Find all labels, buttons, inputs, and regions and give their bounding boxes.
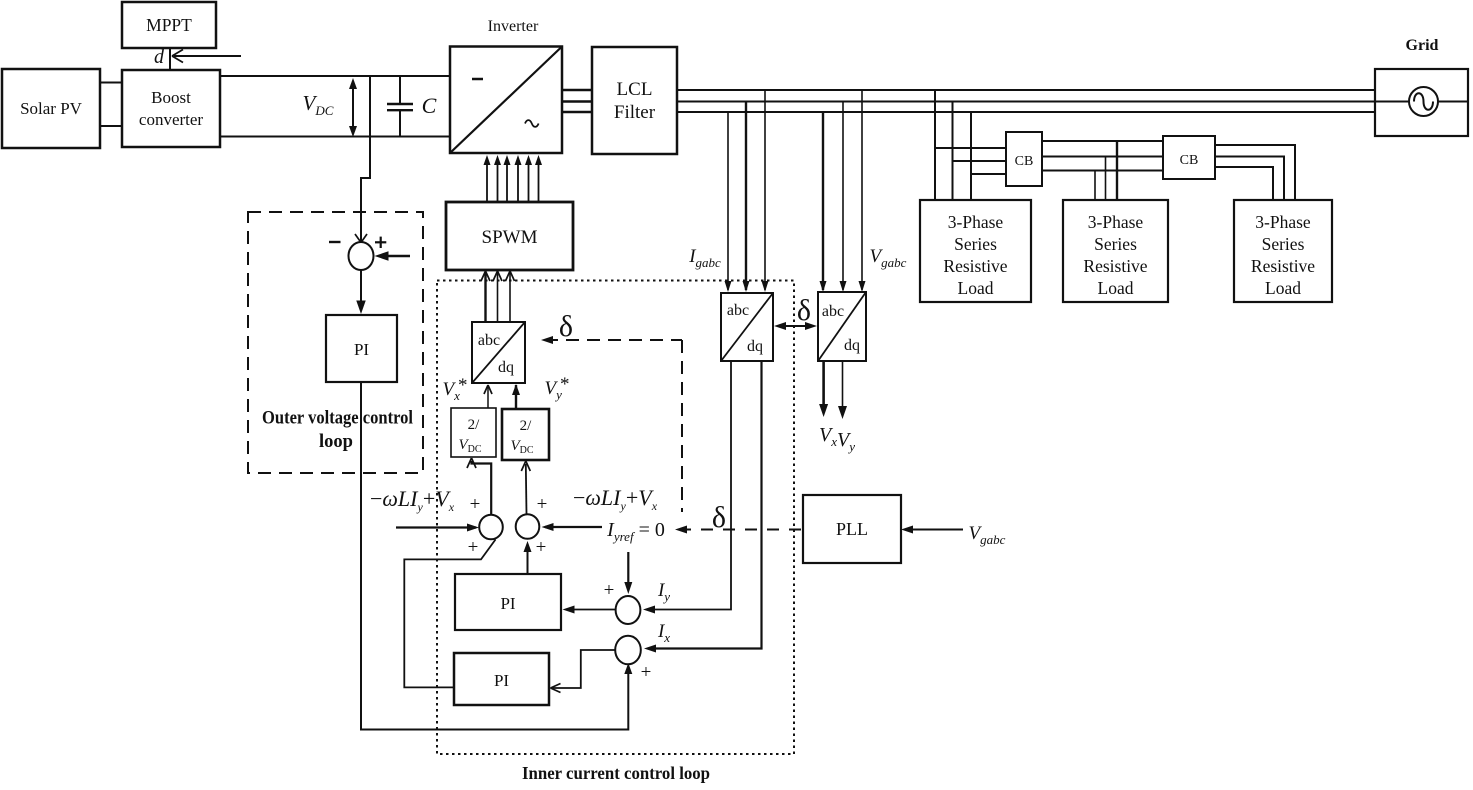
svg-text:Inverter: Inverter [488,18,539,35]
svg-text:Grid: Grid [1406,37,1439,54]
svg-text:δ: δ [559,310,573,343]
svg-text:Resistive: Resistive [1083,256,1147,276]
svg-text:Filter: Filter [614,102,656,123]
svg-text:2/: 2/ [520,418,533,434]
svg-text:abc: abc [478,332,500,349]
svg-text:C: C [422,93,437,118]
svg-text:Inner current control loop: Inner current control loop [522,763,710,783]
svg-text:converter: converter [139,110,204,129]
svg-text:PI: PI [500,594,515,613]
svg-text:abc: abc [727,302,749,319]
svg-text:−ωLIy+Vx: −ωLIy+Vx [370,486,455,514]
svg-text:Solar PV: Solar PV [20,99,83,118]
svg-text:Load: Load [958,278,994,298]
svg-text:SPWM: SPWM [482,227,538,248]
svg-text:Series: Series [1094,234,1137,254]
svg-text:dq: dq [498,359,514,376]
svg-text:Outer voltage control: Outer voltage control [262,408,413,429]
svg-text:Resistive: Resistive [1251,256,1315,276]
svg-text:+: + [468,537,479,558]
svg-text:Resistive: Resistive [943,256,1007,276]
svg-text:Boost: Boost [151,88,191,107]
svg-text:LCL: LCL [617,79,653,100]
svg-text:δ: δ [797,294,811,327]
svg-text:CB: CB [1015,154,1034,169]
svg-text:Series: Series [954,234,997,254]
svg-text:+: + [537,494,548,515]
svg-text:PI: PI [354,340,369,359]
svg-text:+: + [641,662,652,683]
svg-text:PLL: PLL [836,519,868,539]
svg-text:d: d [154,46,165,68]
svg-text:loop: loop [319,431,353,452]
svg-text:PI: PI [494,671,509,690]
svg-text:2/: 2/ [468,417,481,433]
svg-text:Load: Load [1098,278,1134,298]
svg-text:MPPT: MPPT [146,15,192,35]
svg-text:+: + [470,494,481,515]
svg-text:3-Phase: 3-Phase [1255,212,1311,232]
svg-text:δ: δ [712,501,726,534]
svg-text:dq: dq [747,338,763,355]
svg-text:+: + [604,580,615,601]
svg-text:3-Phase: 3-Phase [948,212,1004,232]
svg-text:CB: CB [1180,153,1199,168]
svg-text:−ωLIy+Vx: −ωLIy+Vx [573,485,658,513]
svg-text:abc: abc [822,303,844,320]
svg-text:3-Phase: 3-Phase [1088,212,1144,232]
svg-text:Load: Load [1265,278,1301,298]
svg-text:dq: dq [844,337,860,354]
svg-text:Series: Series [1262,234,1305,254]
svg-text:+: + [536,537,547,558]
